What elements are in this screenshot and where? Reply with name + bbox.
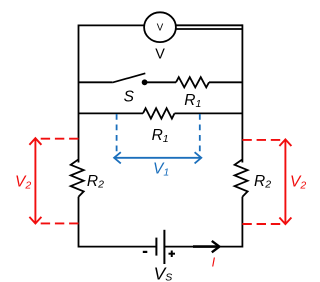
svg-text:S: S bbox=[124, 89, 135, 106]
svg-text:V: V bbox=[155, 47, 165, 63]
wire voltmeter right upper bbox=[176, 24, 243, 26]
V2 left arrow bottom head bbox=[29, 217, 41, 224]
V1 arrow right head bbox=[195, 152, 202, 163]
V2 right bottom dashed bbox=[242, 223, 284, 225]
V2 right arrow shaft bbox=[284, 140, 286, 224]
wire top-left horizontal bbox=[79, 24, 146, 26]
wire left vertical lower bbox=[78, 197, 80, 248]
V2 right arrow top head bbox=[279, 139, 291, 146]
V2 left top dashed bbox=[37, 138, 79, 140]
V2 right top dashed bbox=[242, 139, 284, 141]
svg-text:V: V bbox=[157, 23, 164, 34]
V2 left arrow shaft bbox=[34, 138, 36, 223]
resistor R2 right zigzag bbox=[235, 159, 248, 196]
wire switch to R1 bbox=[145, 81, 176, 83]
node blue dashed right bbox=[199, 114, 201, 153]
battery Vs negative plate bbox=[155, 238, 157, 256]
svg-text:I: I bbox=[212, 256, 216, 270]
wire lower branch right bbox=[175, 112, 243, 114]
wire bottom right bbox=[164, 246, 242, 248]
switch S contact dot bbox=[142, 79, 148, 85]
wire right vertical upper bbox=[241, 24, 243, 162]
current arrow I head bbox=[212, 241, 220, 252]
wire voltmeter right lower bbox=[176, 28, 242, 30]
wire bottom left bbox=[79, 246, 157, 248]
V2 right arrow bottom head bbox=[279, 218, 291, 225]
V2 left arrow top head bbox=[29, 138, 41, 145]
V1 arrow left head bbox=[114, 152, 121, 163]
V2 left bottom dashed bbox=[37, 222, 79, 224]
battery Vs positive plate bbox=[163, 230, 165, 264]
resistor R1 lower zigzag bbox=[143, 108, 175, 118]
node blue dashed left bbox=[116, 114, 118, 153]
wire lower branch left bbox=[79, 112, 144, 114]
V1 arrow shaft bbox=[115, 157, 201, 159]
switch S lever bbox=[112, 73, 145, 82]
current arrow I shaft bbox=[193, 245, 218, 248]
battery plus sign bbox=[169, 251, 176, 258]
wire left vertical upper bbox=[78, 25, 80, 163]
resistor R2 left zigzag bbox=[71, 159, 84, 196]
resistor R1 upper zigzag bbox=[176, 77, 209, 87]
wire R1 upper to right bbox=[209, 81, 242, 83]
wire right vertical lower bbox=[241, 197, 243, 248]
battery minus sign bbox=[143, 251, 148, 253]
wire switch branch left bbox=[79, 81, 113, 83]
voltmeter V bbox=[144, 12, 176, 42]
